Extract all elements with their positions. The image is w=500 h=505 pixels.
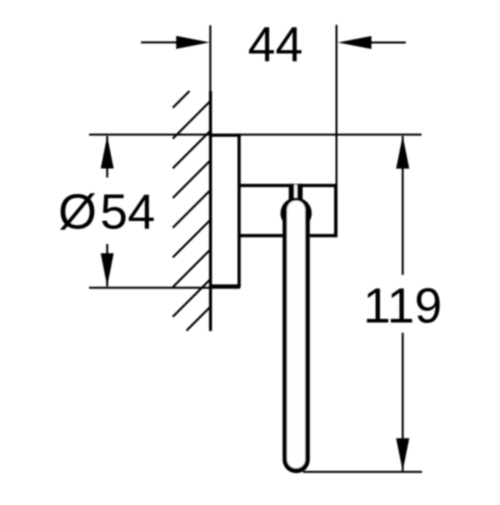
dimension 119: up arrowhead	[396, 136, 409, 169]
extension line: holder front	[336, 25, 338, 185]
dimension 119: lower dimension line	[402, 333, 404, 471]
dimension 44: right leader	[371, 42, 406, 44]
holder body	[239, 184, 336, 237]
svg-text:44: 44	[248, 17, 303, 72]
dimension 44: left-pointing arrowhead	[338, 36, 372, 49]
dimension 119: down arrowhead	[396, 438, 409, 471]
hook curl around pin	[281, 198, 312, 229]
dimension 44: left leader	[141, 41, 177, 43]
dimension 44: right-pointing arrowhead	[176, 36, 210, 49]
svg-text:Ø: Ø	[58, 185, 97, 240]
paper holder loop inner cutout	[287, 201, 305, 469]
svg-text:54: 54	[100, 185, 155, 240]
paper holder loop (outer)	[283, 210, 310, 473]
pivot pin slot cutout	[294, 185, 297, 198]
svg-text:119: 119	[363, 279, 442, 334]
dimension O54: lower dimension line	[106, 244, 108, 287]
dimension O54: upper dimension line	[106, 136, 108, 178]
extension line: plate bottom	[89, 287, 240, 289]
dimension O54: down arrowhead	[101, 253, 114, 286]
extension line: loop bottom	[303, 471, 422, 473]
extension line: plate top / datum	[89, 134, 422, 136]
dimension 119: upper dimension line	[402, 136, 404, 275]
wall plate (escutcheon, side view)	[209, 134, 241, 288]
pivot pin	[289, 184, 303, 200]
wall hatching	[173, 91, 211, 331]
extension line: wall face	[209, 25, 211, 91]
dimension O54: up arrowhead	[101, 136, 114, 169]
wall	[209, 91, 212, 331]
